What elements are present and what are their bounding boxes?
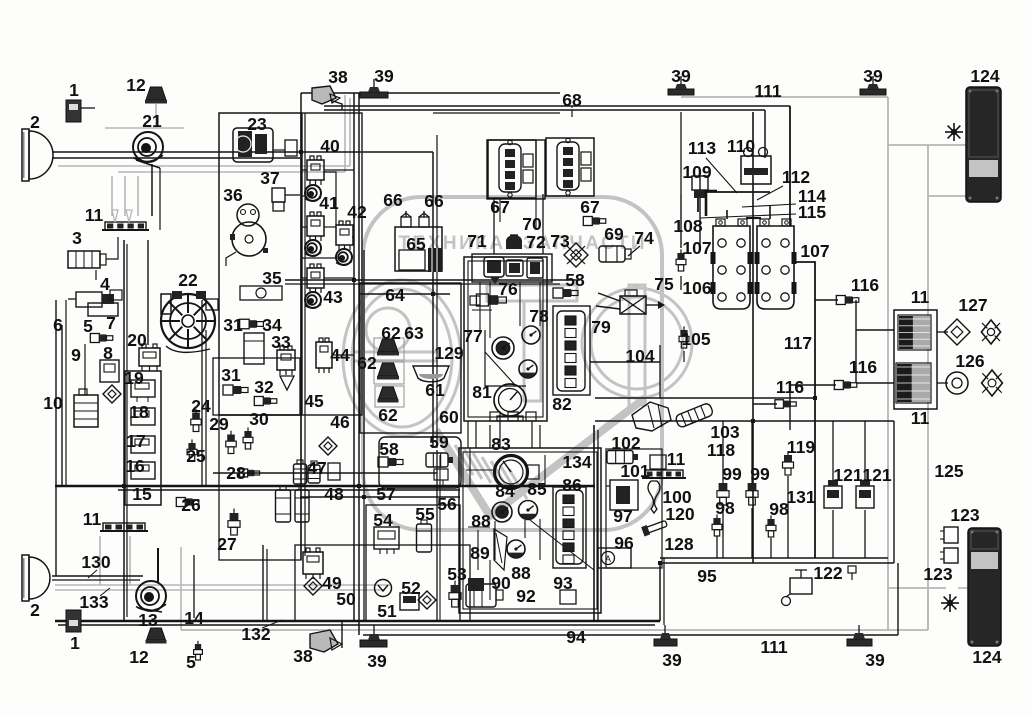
svg-text:39: 39 [367,651,387,671]
horn 21 [133,132,163,162]
svg-text:101: 101 [620,461,649,481]
svg-text:62: 62 [357,353,377,373]
svg-text:82: 82 [552,394,572,414]
svg-text:69: 69 [604,224,624,244]
plug 58 lower [378,457,388,467]
svg-text:40: 40 [320,136,340,156]
wire box 58-59 [379,437,461,488]
cable 109-110 [705,190,708,216]
svg-text:61: 61 [425,380,445,400]
valve 48b [295,490,309,522]
svg-text:30: 30 [249,409,269,429]
svg-text:68: 68 [562,90,582,110]
valve 48a [276,490,291,522]
wire box battery region [680,112,682,194]
svg-text:3: 3 [72,228,82,248]
fuse unit upper [899,316,913,349]
wire gray 111 bottom [181,629,928,631]
handle 128 [641,519,668,537]
svg-text:105: 105 [681,329,710,349]
svg-text:79: 79 [591,317,611,337]
svg-text:12: 12 [129,647,149,667]
relay 44 [316,342,332,368]
wire 13 14 gray riser [193,555,195,618]
svg-text:19: 19 [124,368,144,388]
svg-text:11: 11 [667,449,686,469]
sensor 25 [188,443,195,449]
svg-text:8: 8 [103,343,113,363]
clearance lamp 39 top-mid [668,89,694,95]
wire bus y282 [285,279,580,281]
svg-text:42: 42 [347,202,367,222]
relay 16 [131,462,155,479]
svg-text:93: 93 [553,573,573,593]
clearance lamp 39 bottom-mid [654,639,677,646]
relay 3 [68,251,100,268]
svg-text:124: 124 [970,66,999,86]
svg-text:62: 62 [378,405,398,425]
svg-text:62: 62 [381,323,401,343]
svg-text:21: 21 [142,111,162,131]
wire box instruments upper [464,257,547,421]
svg-text:132: 132 [241,624,270,644]
svg-text:16: 16 [125,456,145,476]
wire box sensors mid-left [213,358,300,415]
svg-text:90: 90 [491,573,511,593]
junction dots [352,278,356,282]
sensor 27 [230,513,239,521]
wire extra spine [363,250,365,621]
sensor 121a [824,486,842,508]
box 34 upper [244,333,264,364]
svg-text:10: 10 [43,393,63,413]
svg-text:73: 73 [550,231,570,251]
plug 76 [476,294,488,306]
svg-text:88: 88 [471,511,491,531]
sensor 99b [748,483,757,491]
svg-text:20: 20 [127,330,147,350]
wire 109 drop [699,176,701,190]
switch 37 [272,188,285,202]
wire gray to tail light bottom [888,587,946,589]
svg-text:31: 31 [221,365,241,385]
valve 122 [790,578,812,594]
wire 68 drop to battery [789,106,791,226]
connector 123b [944,548,958,563]
svg-text:74: 74 [634,228,654,248]
gauge 78 [522,326,540,344]
svg-text:72: 72 [526,232,546,252]
wire right battery drop [752,112,754,563]
panel 77 frame [485,330,526,386]
svg-text:89: 89 [470,543,490,563]
connector 67 right [546,138,594,196]
svg-text:85: 85 [527,479,547,499]
svg-text:129: 129 [434,343,463,363]
svg-text:51: 51 [377,601,397,621]
svg-text:128: 128 [664,534,693,554]
svg-text:14: 14 [184,608,204,628]
arrow 74 [628,246,640,256]
svg-text:134: 134 [562,452,591,472]
wire battery jumper [746,217,761,219]
svg-text:99: 99 [750,464,770,484]
sensor 116a [836,296,845,305]
svg-text:9: 9 [71,345,81,365]
tee fitting near 122 [848,566,856,573]
svg-text:111: 111 [760,637,788,657]
svg-text:71: 71 [467,231,487,251]
svg-text:12: 12 [126,75,146,95]
svg-text:98: 98 [715,498,735,518]
connector 103 [632,402,671,431]
sensor 121b [856,486,874,508]
svg-text:28: 28 [226,463,246,483]
svg-text:130: 130 [81,552,110,572]
svg-text:57: 57 [376,484,395,504]
sensor 98b [767,519,774,525]
gauge 81 [494,384,526,416]
bracket 75 [620,296,646,314]
plug 31 upper [240,319,250,329]
bulb star bottom [953,602,960,604]
connector squares cluster bottom [490,412,500,421]
wire fusebox feeds [856,329,894,331]
svg-text:99: 99 [722,464,742,484]
wire 104 line [590,361,660,363]
gauge 51 [375,580,392,597]
svg-text:26: 26 [181,495,201,515]
svg-text:102: 102 [611,433,640,453]
relay 71 [484,257,504,277]
svg-text:96: 96 [614,533,634,553]
svg-text:63: 63 [404,323,424,343]
wire bus 68 double [324,105,790,107]
connector 5 7 [90,334,99,343]
wire 57 line [300,496,460,498]
relay 8 [100,360,119,382]
wire battery cable right [794,262,815,299]
wire box 60 [360,283,461,433]
svg-text:124: 124 [972,647,1001,667]
gauge 77b [519,360,537,378]
wire gray to lamp 12 top [105,127,184,129]
svg-text:88: 88 [511,563,531,583]
svg-text:122: 122 [813,563,842,583]
lamp 35 [240,286,282,300]
svg-text:67: 67 [490,197,509,217]
sensor 24 [192,413,200,420]
sensor 30 [244,431,251,437]
wire box relays 40-44 [302,113,362,415]
sensor 99a [719,483,728,491]
clearance lamp 39 bottom-left [360,640,387,647]
wire sensor risers [722,421,724,480]
wire sensors rail [595,397,815,399]
svg-text:31: 31 [223,315,243,335]
svg-text:23: 23 [247,114,267,134]
tail light 124 top [966,87,1001,202]
hose 118 [675,402,714,428]
svg-text:116: 116 [849,357,877,377]
sensor 29 [227,435,235,442]
relay 73 [527,258,543,278]
svg-text:27: 27 [217,534,236,554]
wire right bus drop [659,563,661,621]
svg-text:117: 117 [784,333,812,353]
svg-text:127: 127 [958,295,987,315]
svg-text:11: 11 [85,205,104,225]
sensor 119 [784,455,792,462]
wire box 54-56 [366,505,460,621]
relay 17 [131,436,155,453]
pointer 130 [88,570,97,578]
wire box 23-36-35 [219,113,301,415]
sensor 98a [713,518,720,524]
svg-text:1: 1 [70,633,80,653]
sensor 53 [451,585,460,593]
sensor 28 [240,469,248,477]
wire bottom thick bus [55,620,660,623]
flasher 69 [599,246,625,262]
headlamp 2 top [22,129,29,181]
svg-text:112: 112 [782,167,810,187]
svg-text:55: 55 [415,504,435,524]
svg-text:47: 47 [307,458,326,478]
valves 47 [294,464,307,484]
valve 55 [417,524,432,552]
wiper motor 23 [233,128,273,162]
svg-text:11: 11 [83,509,102,529]
svg-text:18: 18 [129,402,149,422]
bulb star top [957,131,964,133]
svg-text:48: 48 [324,484,344,504]
svg-text:38: 38 [293,646,313,666]
svg-text:59: 59 [429,432,449,452]
svg-text:5: 5 [186,652,196,672]
fuse block 79 [557,311,585,391]
wire box relay row 71-73 [472,254,552,282]
battery 107 left [713,226,750,309]
wire cluster x594 [593,425,595,621]
wire lower cluster stubs [494,521,496,560]
relay 49 [303,552,323,574]
svg-text:17: 17 [126,431,145,451]
relay 42 [336,225,353,245]
wire gray terminal 11 drops [111,176,113,216]
wire right bus y563 [660,557,888,559]
gauge 85 [519,501,538,520]
wire 116b stub [790,384,836,386]
wire stubs relays to bus [301,169,307,171]
pointer 132 [262,620,282,628]
pointer 68 [571,106,573,108]
sensor 26 [176,498,185,507]
relay 96 [598,548,631,568]
resistor 10 [74,395,98,427]
terminal strip 11 small [645,470,683,478]
dome lamp 129 [413,366,449,382]
terminal strip 11 top [105,222,146,230]
wire 68 tick [571,110,573,117]
svg-text:37: 37 [260,168,279,188]
filter 92 [466,584,496,607]
wire cluster lower internals [466,469,494,471]
key 100 [648,481,660,513]
svg-text:108: 108 [673,216,702,236]
distributor 36 [237,204,259,226]
wire col 20 drop [147,240,149,345]
svg-text:78: 78 [529,306,549,326]
pilot lamp 62a [378,339,398,352]
gauge 88 [507,540,525,558]
wire gray to tail light top [888,144,966,146]
wire box 79 [553,306,590,395]
svg-text:121: 121 [862,465,891,485]
svg-text:44: 44 [330,345,350,365]
svg-text:95: 95 [697,566,717,586]
svg-text:39: 39 [863,66,883,86]
svg-text:60: 60 [439,407,459,427]
svg-text:107: 107 [682,238,711,258]
fuse block 86 [556,490,583,564]
gauge 83 [495,456,528,489]
svg-text:4: 4 [100,274,110,294]
connector 73x [564,243,588,267]
svg-text:126: 126 [955,351,984,371]
svg-text:41: 41 [319,193,339,213]
gauge 84 [492,502,512,522]
wire box fuse right [894,310,937,409]
wire box 49-53 left wall [262,545,264,621]
wire cluster connectors [467,421,469,448]
svg-text:103: 103 [710,422,739,442]
wire battery top harness [698,191,770,193]
connector 67 left [488,140,536,198]
svg-text:38: 38 [328,67,348,87]
svg-text:46: 46 [330,412,350,432]
wire 5-10 drop [84,344,86,395]
wire verticals x202 [201,300,203,486]
wire top center verticals [300,93,302,560]
wire sensor drops bottom-right [722,508,724,558]
wire gray right vertical 2 [927,145,929,630]
svg-text:111: 111 [754,81,782,101]
wire gray bottom-left harness [55,584,390,586]
svg-text:92: 92 [516,586,536,606]
svg-text:77: 77 [463,326,482,346]
pilot lamp 62b [378,363,398,376]
terminal strip 11 mid [103,523,145,531]
wire left verticals [123,240,125,621]
svg-text:56: 56 [437,494,457,514]
svg-text:11: 11 [911,408,930,428]
connector under 59 [434,469,448,480]
wire thick bus y486 [55,485,595,488]
svg-text:118: 118 [707,440,735,460]
wire cluster double wall upper [468,261,543,417]
wire bottom left headlamp [52,575,143,577]
wire box 97 group [606,449,662,568]
svg-text:25: 25 [186,446,206,466]
svg-text:58: 58 [565,270,585,290]
svg-text:123: 123 [950,505,979,525]
svg-text:104: 104 [625,346,654,366]
wire center spine double [353,93,355,621]
wire instrument left vertical [432,152,434,448]
sensor 105 [680,330,687,336]
watermark logo [331,197,692,530]
sensor 116c [775,400,784,409]
wire top rail [301,92,560,94]
svg-text:2: 2 [30,600,40,620]
svg-text:65: 65 [406,234,426,254]
relay 33 [277,350,295,370]
lamp 1 bottom [66,610,81,632]
fog lamp 38 top [312,86,336,104]
relay 40 [307,160,324,180]
svg-text:13: 13 [138,610,158,630]
svg-text:7: 7 [106,313,116,333]
relay 110 [741,156,771,184]
svg-text:66: 66 [424,191,444,211]
wire box 67 connectors [487,140,545,199]
beacon 12 top [146,87,166,100]
svg-text:123: 123 [923,564,952,584]
wire 67 drops [493,199,495,254]
relay 43 [307,268,324,288]
svg-text:75: 75 [654,274,674,294]
fog lamp 38 bottom [310,630,338,652]
tail light 124 bottom [968,528,1001,646]
wire verticals x437 lower [436,450,438,621]
pilot lamp 62c [379,387,398,399]
switch 54 [374,527,399,549]
connector 4 [76,292,102,307]
wire box bottom mid [295,545,470,621]
svg-text:66: 66 [383,190,403,210]
wire gray 111 top [681,96,888,98]
wire cluster 77 internals [479,282,481,330]
svg-text:76: 76 [498,279,518,299]
svg-text:64: 64 [385,285,405,305]
sensor 59 [426,453,448,467]
clearance lamp 39 bottom-right [847,639,872,646]
svg-text:15: 15 [132,484,152,504]
horn 13 [136,581,166,611]
pad 90 [468,578,484,591]
svg-text:109: 109 [682,162,711,182]
regulator 65 [395,227,442,271]
wire 64 line [360,293,450,295]
pointer 112 114 115 [757,186,783,200]
relay 41 [307,216,324,236]
connector 127 [944,319,970,345]
svg-text:115: 115 [798,202,826,222]
wire y473 line [213,472,437,474]
plug 58 upper [553,288,563,298]
sensor 5 bottom [195,644,201,650]
pointer 133 [100,588,110,596]
svg-text:106: 106 [682,278,711,298]
svg-text:67: 67 [580,197,599,217]
svg-text:120: 120 [665,504,694,524]
plug 67 small [583,217,592,226]
connector 109 [692,176,708,190]
wire box 35 lower [219,415,301,560]
box 93 [560,590,576,604]
wire box relay block 15-19 [125,371,161,505]
